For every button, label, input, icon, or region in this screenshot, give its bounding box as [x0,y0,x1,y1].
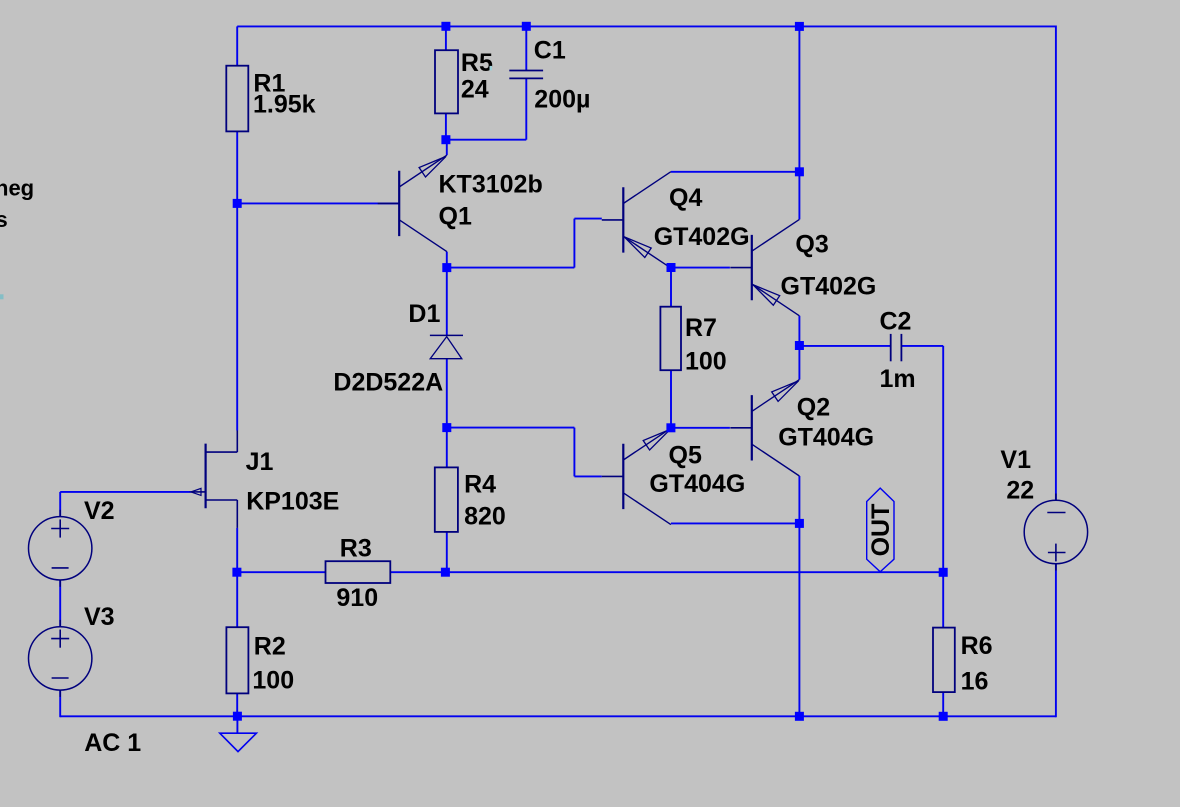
transistor Q1 KT3102b [378,155,543,251]
svg-text:R3: R3 [340,535,372,563]
node R6 bottom / rail [939,712,948,721]
wire right branch to V1 top [1055,26,1057,501]
wire R1 top stub [236,26,238,65]
wire Q1 base [237,202,399,204]
svg-text:Q3: Q3 [795,231,828,259]
teal artifact near C1 [490,66,493,71]
ground symbol [220,733,257,751]
svg-text:Q1: Q1 [439,202,472,230]
node V+ / R5 top [441,22,450,31]
svg-text:Q5: Q5 [669,441,702,469]
svg-text:C2: C2 [880,308,912,336]
resistor R7 [660,307,726,376]
node output column / rail [795,712,804,721]
resistor R6 [933,628,993,696]
node Q1 collector / D1 [442,263,451,272]
node J1 source / R3 / R2 [232,568,241,577]
svg-text:KT3102b: KT3102b [439,171,543,199]
svg-text:Q4: Q4 [669,184,702,212]
transistor Q5 GT404G [602,428,745,524]
svg-text:820: 820 [464,503,506,531]
svg-text:R7: R7 [685,314,717,342]
wire R7 bottom stub [670,370,672,428]
wire Q4 collector to right column [671,171,800,173]
clipped directive text "s" [0,207,8,232]
svg-text:GT404G: GT404G [649,470,745,498]
svg-text:GT402G: GT402G [654,223,750,251]
svg-text:GT402G: GT402G [781,273,877,301]
node R7 bottom / Q5 emitter [666,423,675,432]
node R2 bottom / ground [233,712,242,721]
wire Q5 emitter to output node [671,522,799,524]
node C2 / R6 top [939,568,948,577]
wire R5 bottom to node [445,113,447,139]
diode D1 D2D522A [333,300,463,396]
wire R4 top stub [446,428,448,468]
svg-text:R5: R5 [461,49,493,77]
wire V2 to J1 gate [60,492,191,517]
wire R4 bottom stub [446,532,448,572]
node V+ / right column [795,22,804,31]
svg-text:D1: D1 [408,300,440,328]
clipped directive text "neg" [0,176,34,201]
transistor Q2 GT404G [730,380,874,476]
wire R2 top stub [236,572,238,627]
wire node to C2 left plate [799,345,890,347]
wire R6 top stub [942,572,944,627]
voltage source V2 [29,497,115,587]
svg-text:910: 910 [336,584,378,612]
resistor R1 [226,66,315,132]
svg-text:22: 22 [1006,477,1034,505]
wire V1 bottom to ground rail [1055,564,1057,718]
wire R5 top stub [445,26,447,50]
node R1 bottom / Q1 base [233,199,242,208]
svg-text:24: 24 [461,76,489,104]
wire Q1 collector to Q4 base [447,219,602,268]
svg-text:s: s [0,207,8,232]
wire R4 node to Q5 base [447,428,602,477]
wire R6 bottom stub [942,692,944,716]
wire R7 top stub [670,268,672,307]
svg-text:GT404G: GT404G [778,424,874,452]
jfet J1 KP103E [191,431,340,528]
wire Q1 collector stub [446,252,448,268]
node Q5 / Q2 output junction [795,519,804,528]
wire Q1 emitter stub [446,140,448,156]
svg-text:16: 16 [961,668,989,696]
wire Q2 emitter stub [798,476,800,523]
label AC 1 [84,729,141,757]
wire V2 to V3 [59,580,61,627]
svg-text:Q2: Q2 [797,394,830,422]
voltage source V3 [29,603,115,697]
clipped teal directive mark left edge [0,294,4,299]
wire feedback rail R3 to R6 [237,571,943,573]
node R5 bottom / C1 / Q1 emitter [441,135,450,144]
svg-text:V2: V2 [84,497,115,525]
svg-text:R6: R6 [961,632,993,660]
wire Q3 emitter stub [798,316,800,346]
svg-text:1.95k: 1.95k [253,91,316,119]
svg-text:100: 100 [252,667,294,695]
resistor R5 [435,49,493,113]
svg-text:OUT: OUT [867,504,895,557]
wire left vertical R1 to J1 drain [236,131,238,430]
svg-text:D2D522A: D2D522A [333,369,443,397]
resistor R3 [326,535,391,612]
wire V+ top rail [237,25,1056,27]
node Q4 collector / Q3 collector [795,167,804,176]
svg-text:V3: V3 [84,603,115,631]
wire C1 bottom and link to R5 [446,79,526,140]
wire Q2 collector stub [798,346,800,380]
svg-text:R2: R2 [254,632,286,660]
svg-text:neg: neg [0,176,34,201]
wire R2 bottom stub [236,693,238,716]
node Q4 emitter / R7 top [667,263,676,272]
svg-text:C1: C1 [534,36,566,64]
wire D1 anode to R4 node [446,359,448,428]
svg-text:J1: J1 [246,448,274,476]
wire bottom ground rail [60,715,1056,717]
node D1 anode / R4 top [442,423,451,432]
capacitor C2 [880,308,916,394]
wire J1 source to R3 node [236,528,238,572]
svg-text:AC 1: AC 1 [84,729,141,757]
svg-text:V1: V1 [1000,446,1031,474]
wire C1 top stub [525,26,527,70]
resistor R2 [226,627,294,694]
svg-text:100: 100 [685,348,727,376]
node V+ / C1 top [522,22,531,31]
wire output node to ground rail [798,523,800,716]
transistor Q3 GT402G [730,219,876,315]
wire node to Q3 base [671,267,730,269]
node Q3 emitter / Q2 collector / C2 [795,341,804,350]
svg-text:200µ: 200µ [534,86,590,114]
node R3 right / R4 bottom [441,568,450,577]
resistor R4 [435,467,506,532]
svg-text:R4: R4 [464,471,496,499]
wire right column top [798,26,800,219]
wire C2 right plate to R6 top [901,346,943,572]
voltage source V1 [1000,446,1087,570]
net flag OUT [867,488,895,572]
wire node to Q2 base [671,427,730,429]
wire node to D1 cathode [446,268,448,336]
capacitor C1 [509,36,590,113]
wire V3 bottom to rail [59,690,61,717]
svg-text:1m: 1m [880,365,916,393]
svg-text:KP103E: KP103E [246,488,339,516]
wire ground stub [236,716,238,733]
transistor Q4 GT402G [602,172,750,268]
